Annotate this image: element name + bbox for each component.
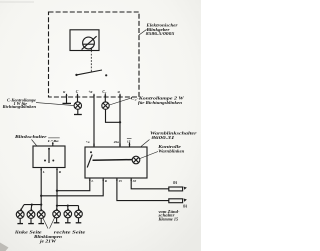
terminal C tick	[77, 94, 79, 97]
flasher contact lever	[77, 70, 103, 75]
hook to lamp R2	[67, 206, 69, 211]
junction dot L	[40, 195, 42, 197]
flasher terminal labels	[63, 90, 119, 95]
hazard top terminal 49a	[119, 143, 121, 147]
ground lamp R1	[56, 218, 58, 223]
hazard bottom labels	[90, 179, 136, 183]
hazard bottom terminal B3	[116, 178, 118, 182]
kontrolle label leader	[140, 152, 158, 159]
blinkschalter contact dots	[44, 160, 46, 162]
ground lamp L3	[40, 218, 42, 223]
junction dot	[119, 121, 121, 123]
terminal C2 tick	[104, 94, 106, 97]
svg-text:L: L	[90, 179, 93, 183]
mechanical linkage (dashed)	[90, 51, 92, 72]
hazard switch box (Warnblinkschalter)	[85, 147, 147, 178]
svg-text:je 21W: je 21W	[39, 240, 57, 244]
hazard bottom terminal B2	[102, 178, 104, 182]
relay coil box U1	[70, 30, 99, 51]
wire u2 down to hazard switch	[119, 97, 121, 147]
scan smudge bottom-left corner	[0, 243, 9, 251]
svg-text:C₂-Kontrollampe 2 W: C₂-Kontrollampe 2 W	[131, 96, 185, 100]
blinker lamp R2	[64, 210, 72, 218]
ground lamp R3	[78, 218, 80, 223]
svg-text:L: L	[42, 170, 45, 174]
wire B4 to upper fuse	[131, 182, 168, 189]
hook to lamp R1	[56, 206, 58, 211]
svg-text:8600.31: 8600.31	[152, 136, 175, 140]
svg-text:Blinklampen: Blinklampen	[33, 235, 62, 239]
terminal +a tick	[93, 94, 95, 97]
left lamp bus	[24, 204, 41, 206]
fixed contact dot	[105, 74, 107, 76]
wire R line down	[56, 172, 58, 206]
pulse symbol crossbar	[83, 43, 94, 45]
terminal u2 tick	[119, 94, 121, 97]
svg-text:rechte Seite: rechte Seite	[54, 230, 86, 234]
svg-text:Kontrolle: Kontrolle	[157, 145, 181, 149]
terminal arrows on dashed edge	[66, 96, 122, 98]
pulse generator symbol circle	[83, 37, 95, 49]
right lamp bus	[57, 205, 79, 207]
hazard link bar	[93, 159, 133, 162]
hazard label leader	[141, 140, 150, 147]
svg-text:8586.5/0005: 8586.5/0005	[146, 32, 175, 36]
wire C2 to lamp	[104, 97, 106, 102]
svg-text:für Richtungsblinken: für Richtungsblinken	[138, 101, 182, 105]
svg-text:+a: +a	[86, 140, 90, 144]
hazard lever	[87, 155, 92, 168]
fuse F2 lower	[169, 199, 183, 203]
wire B3 to lower fuse	[117, 182, 169, 201]
leader C-lamp label	[36, 103, 74, 106]
svg-text:Klemme 15: Klemme 15	[157, 217, 178, 221]
svg-text:Warnblinkschalter: Warnblinkschalter	[150, 132, 197, 136]
wire L bus to hazard B2	[41, 182, 103, 196]
junction dot R	[56, 190, 58, 192]
hazard top labels	[86, 138, 132, 143]
label L+Ra overbar	[48, 137, 60, 140]
blinker lamp L1	[16, 211, 24, 219]
svg-text:8A: 8A	[173, 181, 178, 185]
hazard bottom terminal B4	[130, 178, 132, 182]
svg-text:49a: 49a	[113, 140, 120, 144]
ground lamp L2	[30, 218, 32, 223]
leader C2-lamp label	[109, 98, 130, 105]
indicator lamp C2 (2W)	[102, 102, 109, 109]
svg-text:C2: C2	[102, 90, 106, 95]
blinker lamp R1	[53, 210, 61, 218]
svg-text:Richtungsblinken: Richtungsblinken	[3, 105, 37, 109]
wire u1 down	[66, 97, 68, 103]
blinker lamp R3	[75, 210, 83, 218]
blinker lamp L2	[27, 211, 35, 219]
blinkschalter lever	[48, 149, 50, 163]
lever pivot dot	[75, 74, 77, 76]
wire +a down to hazard switch	[93, 97, 95, 147]
wire lamp C2 down and right	[106, 109, 121, 122]
wire lamp C to ground	[77, 109, 79, 114]
svg-text:Warnblinken: Warnblinken	[158, 150, 184, 154]
terminal L stub	[40, 168, 42, 172]
hazard contact dot	[90, 151, 92, 153]
hook to lamp L2	[30, 205, 33, 211]
pulse symbol diagonal	[82, 36, 97, 49]
blinker lamp L3	[37, 211, 45, 219]
leader flasher label	[139, 30, 147, 36]
hazard warning lamp	[132, 156, 140, 164]
terminal R stub	[56, 168, 58, 172]
blinkschalter top stub	[52, 142, 54, 146]
svg-text:8A: 8A	[183, 204, 188, 208]
hook to lamp L1	[21, 205, 24, 211]
coil to linkage stub	[90, 48, 92, 50]
turn signal switch box (Blinkschalter)	[33, 146, 65, 168]
fuse F1 upper	[169, 187, 183, 191]
svg-text:+a: +a	[88, 90, 92, 94]
wire L line down	[40, 172, 42, 205]
paper background	[0, 0, 201, 251]
svg-text:15: 15	[127, 139, 131, 143]
flasher unit dashed enclosure	[49, 12, 140, 97]
ground bar u1	[63, 102, 72, 104]
ground lamp R2	[67, 218, 69, 223]
leader blinklampen right	[50, 217, 55, 228]
svg-text:15: 15	[119, 179, 123, 183]
wire R bus to hazard B1	[57, 182, 90, 191]
ground lamp L1	[19, 218, 21, 223]
svg-text:u: u	[118, 90, 120, 94]
svg-text:L+Ra: L+Ra	[46, 139, 59, 143]
blinkschalter leader	[32, 140, 37, 146]
hazard top terminal 15	[129, 143, 131, 148]
svg-text:30: 30	[132, 179, 137, 183]
hook to lamp R3	[78, 206, 80, 211]
leader blinklampen left	[43, 217, 49, 228]
scan edge mark top-left	[0, 1, 34, 4]
terminal u1 tick	[66, 94, 68, 97]
hazard top terminal +a	[93, 143, 95, 147]
hook to lamp L3	[40, 205, 42, 211]
wire C to lamp	[77, 97, 79, 102]
svg-text:u: u	[63, 90, 65, 94]
svg-text:Blinkschalter: Blinkschalter	[14, 135, 48, 139]
hazard bottom terminal B1	[89, 178, 91, 182]
ground bar under lamp C	[74, 114, 82, 116]
indicator lamp C (1W)	[74, 102, 81, 109]
svg-text:linke Seite: linke Seite	[15, 230, 42, 234]
